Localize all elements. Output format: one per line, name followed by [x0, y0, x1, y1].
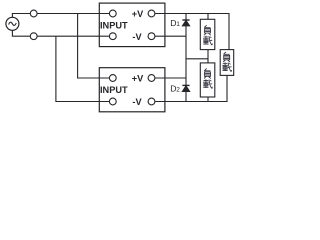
svg-text:+V: +V [132, 74, 144, 84]
svg-text:INPUT: INPUT [100, 85, 128, 95]
svg-text:2: 2 [176, 87, 180, 94]
svg-text:-V: -V [132, 32, 142, 42]
svg-text:1: 1 [176, 21, 180, 28]
svg-text:INPUT: INPUT [100, 20, 128, 30]
svg-text:-V: -V [132, 97, 142, 107]
svg-text:+V: +V [132, 9, 144, 19]
